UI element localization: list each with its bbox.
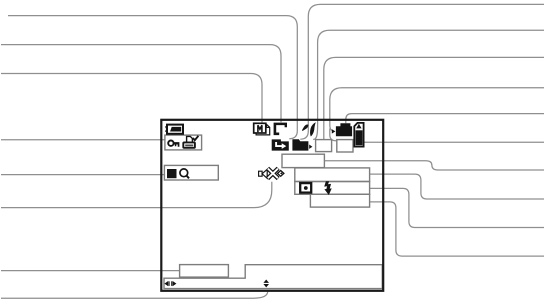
node box C [295,182,370,195]
wire callout L6 to mute icon [1,182,272,208]
flame icon [302,122,316,136]
mute speaker icon [259,168,284,178]
node box B [295,168,370,182]
protect key icon [168,141,179,147]
node box A [282,154,324,167]
wire callout R6 from memory stick icon [365,141,544,143]
wire callout R3 to box1 [324,57,544,139]
playback folder 2 icon [332,123,352,136]
node box1 [316,140,332,152]
up-down arrows icon [263,280,269,288]
folder 1 icon [292,139,312,150]
wire callout R7 from box A [324,161,544,170]
wire callout L7 to small bottom box [1,270,180,272]
bracket image-size icon [274,123,287,136]
M pages icon [254,123,270,135]
wire callout L4 to protect box [1,139,165,141]
node protect/print box [165,135,202,150]
wire callout R8 from box B [370,174,544,199]
wire callout R4 to playback-folder triangle [330,88,544,131]
wire callout L5 to zoom box [1,174,164,176]
wire callout L8 to up-down arrows [1,291,268,298]
exit-folder icon [272,139,289,150]
wire callout R10 from box D [370,202,544,256]
print mark icon [183,136,198,148]
wire callout R2 to flame / box1 left [313,30,544,139]
wire callout L2 to bracket icon [1,45,281,123]
wire callout R5 to folder 2 [346,114,544,124]
wire callout R4b to box2 [330,129,337,141]
battery icon [165,125,183,134]
LCD screen border [161,120,383,291]
wire callout R1 to folder 1 [300,4,544,139]
left-right arrows icon [164,281,176,286]
LCD screen fill [161,120,383,291]
flash bolt icon [324,181,332,195]
zoom magnifier icon [180,169,189,178]
memory stick icon [354,123,363,147]
zoom indicator square [167,169,177,178]
spot meter icon [300,183,311,193]
wire callout R9 from box C [370,188,544,227]
node box D [310,194,369,207]
node small bottom box [180,265,229,278]
node bottom bar box [164,265,382,289]
wire callout L3 to M pages icon [1,74,262,123]
node zoom box [164,165,218,180]
node box2 [337,140,353,152]
wire callout L1 to exit-folder icon [8,16,297,139]
